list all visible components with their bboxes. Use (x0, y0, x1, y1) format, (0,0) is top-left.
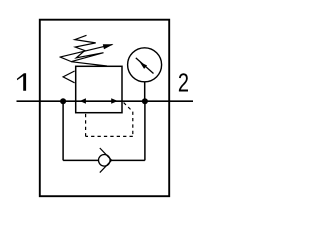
check valve V1 body (99, 155, 111, 167)
node A junction (60, 98, 66, 104)
gauge needle shaft (136, 58, 154, 74)
regulator body (76, 66, 122, 112)
adjustment spring tail (61, 57, 72, 61)
pilot line (dashed) left vertical (85, 113, 87, 137)
check valve V1 seat (100, 148, 112, 173)
gauge needle head (140, 62, 148, 69)
adjustment arrow shaft (60, 44, 113, 57)
node B junction (142, 98, 148, 104)
bypass wire: node A down (62, 101, 64, 160)
wire: regulator flow path (76, 100, 122, 102)
pressure gauge G1 (128, 48, 162, 82)
wire: port 2 stub (169, 100, 193, 102)
bypass wire: bottom run (63, 159, 145, 161)
flow arrow left (relief direction) (80, 98, 86, 103)
pilot line (dashed) right vertical (132, 112, 134, 137)
pilot line (dashed) diagonal (124, 103, 133, 112)
flow arrow right (flow direction) (111, 98, 118, 103)
svg-text:2: 2 (178, 68, 189, 97)
wire: node A to regulator inlet (40, 100, 76, 102)
wire: regulator outlet to node B (122, 100, 169, 102)
enclosure frame (40, 20, 169, 197)
adjustment arrow head (103, 44, 114, 49)
port label 1 (17, 73, 26, 91)
adjustment spring (71, 35, 107, 66)
pilot line (dashed) bottom run (86, 135, 133, 137)
vent triangle (63, 71, 75, 83)
bypass wire: up to node B (144, 101, 146, 160)
gauge stem wire (144, 82, 146, 101)
wire: port 1 stub (17, 100, 40, 102)
